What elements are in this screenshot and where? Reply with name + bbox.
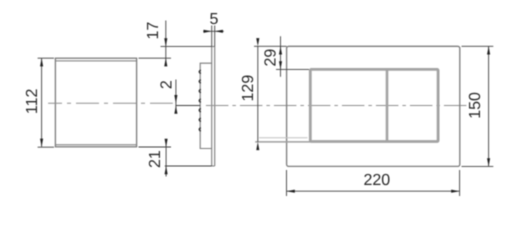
- svg-text:150: 150: [467, 92, 484, 119]
- svg-text:129: 129: [240, 75, 257, 102]
- svg-text:21: 21: [147, 150, 164, 168]
- svg-text:29: 29: [262, 49, 279, 67]
- svg-text:17: 17: [145, 22, 162, 40]
- svg-text:2: 2: [158, 80, 175, 89]
- svg-text:112: 112: [24, 88, 41, 114]
- svg-text:220: 220: [363, 172, 390, 189]
- svg-text:5: 5: [210, 11, 219, 28]
